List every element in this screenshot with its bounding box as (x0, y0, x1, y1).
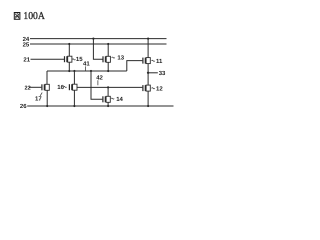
node 42 line from Q16 to gate of Q12 (77, 86, 142, 88)
svg-text:26: 26 (20, 103, 27, 110)
junction dot rail25/Q13 (107, 43, 109, 45)
svg-text:12: 12 (156, 85, 163, 92)
svg-text:11: 11 (156, 58, 163, 65)
supply rail 25 (30, 43, 167, 45)
wire Q14 source down to rail 26 (107, 102, 109, 106)
wire Q16 source down to rail 26 (73, 90, 75, 106)
junction dot node42/Q14 (107, 86, 109, 88)
wire Q13 source down to node 41 (107, 62, 109, 71)
wire Q13 drain up to rail 25 (107, 44, 109, 56)
transistor Q16 (69, 84, 77, 90)
leader from label 41 to node line (85, 66, 87, 71)
junction dot rail24/Q13 gate (92, 38, 94, 40)
node 41 horizontal line (47, 70, 127, 72)
junction dot node 33 (147, 72, 149, 74)
wire Q15 source down to node 41 (68, 62, 70, 71)
branch node41 down to gate of Q14 (91, 71, 102, 99)
svg-text:14: 14 (116, 96, 123, 103)
junction dot rail24/Q11 (147, 38, 149, 40)
junction dot node41/Q15 (68, 70, 70, 72)
wire Q15 drain up to rail 25 (68, 44, 70, 56)
svg-text:33: 33 (159, 70, 166, 77)
junction dot rail25/Q15 (68, 43, 70, 45)
wire node41 jog up to gate of Q11 (127, 61, 143, 71)
stub to label 33 (148, 72, 158, 74)
wire 21 to gate of Q15 (31, 58, 65, 60)
transistor Q15 (65, 56, 72, 62)
wire Q12 source down to rail 26 (147, 91, 149, 106)
wire Q17 source down to rail 26 (46, 90, 48, 106)
wire Q14 drain up to node 42 (107, 87, 109, 96)
junction dot rail26/Q16 (73, 105, 75, 107)
svg-text:22: 22 (25, 85, 31, 91)
wire Q11 source down to node 33 and Q12 drain (147, 64, 149, 86)
svg-text:16: 16 (57, 84, 64, 91)
leader from label 17 to Q17 (40, 93, 42, 96)
leader squiggle label16 to gate of Q16 (63, 86, 66, 87)
leader dash for label 13 (112, 57, 115, 58)
wire gate of Q13 to rail 24 (93, 39, 102, 60)
transistor Q13 (103, 56, 110, 62)
wire Q16 drain up to node 41 (73, 71, 75, 84)
junction dot node41/Q13 (107, 70, 109, 72)
junction dot rail26/Q12 (147, 105, 149, 107)
junction dot node41/branch (90, 70, 92, 72)
leader squiggle for label 15 (72, 59, 75, 60)
svg-text:41: 41 (83, 61, 90, 68)
svg-text:100A: 100A (23, 11, 45, 22)
wire 22 to gate of Q17 (29, 86, 41, 88)
leader squiggle for label 11 (152, 60, 155, 61)
wire Q11 drain up to rail 24 (147, 39, 149, 58)
supply rail 24 (30, 38, 167, 40)
transistor Q14 (103, 96, 110, 102)
junction dot node41/Q16 (73, 70, 75, 72)
transistor Q17 (42, 84, 49, 90)
leader squiggle for label 12 (152, 88, 155, 89)
svg-text:17: 17 (35, 95, 42, 102)
leader from label 42 toward node 42 line (97, 80, 99, 85)
transistor Q12 (143, 85, 150, 91)
transistor Q11 (143, 58, 150, 64)
node 41 left corner down to Q17 drain (46, 71, 48, 84)
junction dot rail26/Q14 (107, 105, 109, 107)
svg-text:42: 42 (96, 74, 103, 81)
junction dot rail26/Q17 (46, 105, 48, 107)
ground rail 26 (27, 105, 173, 107)
svg-text:21: 21 (23, 56, 30, 63)
svg-text:25: 25 (23, 42, 30, 49)
svg-text:13: 13 (117, 54, 124, 61)
figure title 図 glyph box (14, 13, 20, 20)
leader squiggle for label 14 (111, 98, 114, 99)
